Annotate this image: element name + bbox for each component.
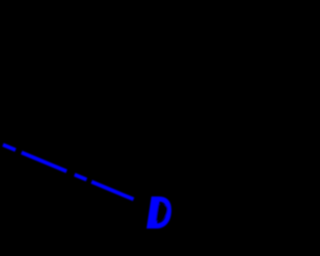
wire: dash-dot construction line D xyxy=(3,145,135,200)
node label D xyxy=(146,187,173,239)
